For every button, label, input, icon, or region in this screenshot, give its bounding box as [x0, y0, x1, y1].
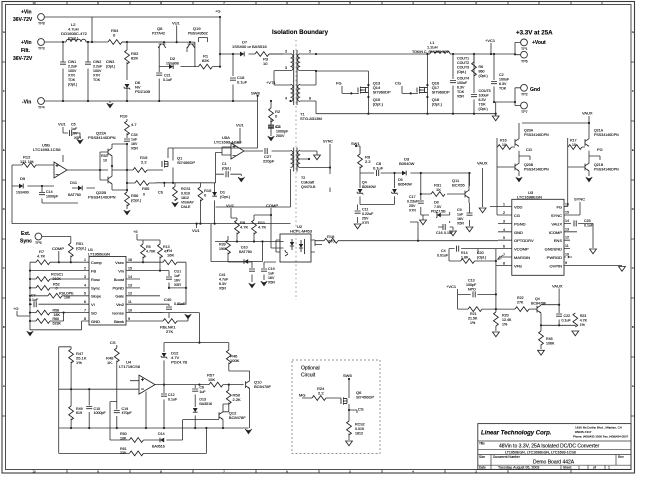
svg-text:SYNC: SYNC: [574, 197, 585, 202]
svg-text:BA3516: BA3516: [199, 402, 212, 406]
svg-text:+G: +G: [13, 306, 18, 311]
svg-text:BC8478F: BC8478F: [229, 415, 246, 420]
svg-text:F: F: [3, 89, 5, 93]
svg-text:R55: R55: [142, 186, 150, 191]
svg-text:10: 10: [32, 470, 36, 474]
svg-text:3: 3: [503, 219, 505, 223]
svg-text:15K: 15K: [208, 377, 215, 382]
svg-text:D10: D10: [241, 246, 248, 250]
svg-text:X5R: X5R: [74, 136, 81, 140]
svg-text:BAT760: BAT760: [68, 193, 81, 197]
svg-text:C: C: [632, 266, 634, 270]
svg-text:TP2: TP2: [521, 93, 528, 97]
svg-text:MARGIN: MARGIN: [514, 255, 530, 260]
svg-text:10: 10: [572, 143, 576, 147]
svg-text:470pF: 470pF: [122, 411, 133, 415]
svg-text:82K: 82K: [202, 58, 209, 63]
svg-text:4.7: 4.7: [131, 122, 137, 127]
svg-text:TDK: TDK: [479, 103, 487, 107]
svg-text:25V: 25V: [409, 204, 416, 208]
svg-text:FG: FG: [556, 205, 562, 210]
svg-text:TP7: TP7: [521, 110, 528, 114]
svg-text:C40: C40: [164, 297, 172, 302]
svg-text:TP3: TP3: [38, 47, 45, 51]
svg-text:VCOMP: VCOMP: [514, 247, 529, 252]
svg-text:12: 12: [128, 292, 132, 296]
svg-text:1%: 1%: [76, 360, 82, 365]
svg-text:X5R: X5R: [457, 95, 464, 99]
svg-text:1000pF: 1000pF: [276, 130, 289, 134]
svg-text:DALE: DALE: [181, 205, 191, 209]
svg-text:R49: R49: [76, 407, 83, 411]
svg-text:11: 11: [565, 244, 569, 248]
svg-text:C20: C20: [477, 251, 484, 255]
svg-text:Sync: Sync: [20, 239, 32, 245]
svg-text:R21: R21: [470, 312, 477, 316]
svg-text:Q21A: Q21A: [594, 129, 604, 133]
svg-text:4.7K: 4.7K: [37, 254, 46, 259]
svg-text:(Opt.): (Opt.): [106, 65, 115, 69]
svg-text:PSS34140DPN: PSS34140DPN: [88, 195, 116, 200]
svg-text:C15: C15: [94, 407, 101, 411]
svg-text:B0540W: B0540W: [362, 185, 376, 189]
svg-text:CIN1: CIN1: [68, 60, 76, 64]
svg-text:Circuit: Circuit: [301, 373, 316, 379]
svg-text:Optional: Optional: [301, 366, 320, 372]
svg-text:16V: 16V: [457, 217, 464, 221]
svg-text:6: 6: [503, 245, 505, 249]
svg-text:+VC1: +VC1: [446, 284, 457, 289]
svg-text:D: D: [632, 207, 634, 211]
svg-text:Q4: Q4: [362, 181, 367, 185]
svg-text:VAUX: VAUX: [582, 111, 593, 116]
svg-text:C13: C13: [468, 279, 475, 283]
svg-text:100uF: 100uF: [499, 78, 510, 82]
svg-text:Vin2: Vin2: [116, 302, 125, 307]
svg-text:VI: VI: [91, 302, 95, 307]
svg-text:27K: 27K: [166, 329, 173, 334]
svg-text:COUT1: COUT1: [457, 57, 469, 61]
svg-text:C14: C14: [46, 190, 53, 194]
svg-text:VDD: VDD: [514, 205, 523, 210]
svg-text:15: 15: [128, 266, 132, 270]
svg-text:TP8: TP8: [38, 22, 45, 26]
svg-text:R20: R20: [502, 314, 509, 318]
svg-text:(Opt.): (Opt.): [68, 36, 79, 41]
svg-text:Rosc: Rosc: [91, 277, 100, 282]
svg-text:LTC1693-1CS8: LTC1693-1CS8: [214, 140, 242, 145]
svg-text:GND: GND: [514, 230, 523, 235]
svg-text:Q20B: Q20B: [524, 163, 534, 167]
svg-text:0.1uF: 0.1uF: [562, 319, 572, 323]
svg-text:1630 McCarthy Blvd., Milpitas,: 1630 McCarthy Blvd., Milpitas, CA: [575, 426, 623, 430]
svg-text:Date: Date: [479, 466, 486, 470]
svg-text:100uF: 100uF: [479, 94, 490, 98]
svg-text:1.2uH: 1.2uH: [427, 45, 438, 50]
svg-text:Gate: Gate: [115, 294, 124, 299]
svg-text:+Vout: +Vout: [532, 40, 546, 46]
svg-text:PSS34140DPN: PSS34140DPN: [594, 168, 619, 172]
svg-text:PGND: PGND: [112, 286, 124, 291]
svg-text:D9: D9: [20, 176, 26, 181]
svg-text:TOKIN C. PI-1365-1R2: TOKIN C. PI-1365-1R2: [412, 50, 449, 54]
svg-text:X7R: X7R: [362, 221, 369, 225]
svg-text:(Opt.): (Opt.): [373, 102, 384, 107]
svg-text:PSS34140DPN: PSS34140DPN: [524, 168, 549, 172]
svg-text:C19: C19: [268, 267, 275, 271]
svg-text:C: C: [3, 266, 5, 270]
svg-text:PSS34140DPN: PSS34140DPN: [524, 133, 549, 137]
svg-text:SYNC: SYNC: [323, 140, 333, 144]
svg-text:STG-8313M: STG-8313M: [300, 116, 322, 121]
svg-text:4: 4: [84, 284, 86, 288]
svg-text:Q4: Q4: [535, 297, 540, 301]
svg-text:HCPL-M453: HCPL-M453: [290, 229, 313, 234]
svg-text:200V: 200V: [276, 134, 285, 138]
svg-text:Rev: Rev: [618, 455, 624, 459]
svg-text:PDZ7.5B: PDZ7.5B: [431, 210, 446, 214]
svg-text:1%: 1%: [502, 323, 508, 327]
svg-text:4.7uF: 4.7uF: [219, 278, 229, 282]
svg-text:VAUX: VAUX: [551, 221, 562, 226]
svg-text:121 1%: 121 1%: [20, 159, 34, 164]
svg-text:COMP: COMP: [266, 203, 278, 208]
svg-text:4.70K: 4.70K: [146, 250, 156, 254]
svg-text:4.7K: 4.7K: [580, 319, 588, 323]
svg-text:100V: 100V: [93, 69, 102, 73]
svg-text:16V: 16V: [131, 142, 138, 146]
svg-text:4: 4: [285, 97, 287, 101]
svg-text:CS: CS: [110, 340, 116, 345]
svg-text:Tuesday, August 05, 2003: Tuesday, August 05, 2003: [498, 466, 539, 470]
svg-text:D8: D8: [434, 201, 439, 205]
svg-text:+G: +G: [215, 9, 220, 14]
svg-text:Blank: Blank: [114, 319, 124, 324]
svg-text:14: 14: [128, 275, 132, 279]
svg-text:95035-7417: 95035-7417: [575, 430, 592, 434]
svg-text:COUT3: COUT3: [457, 66, 469, 70]
svg-text:16: 16: [565, 203, 569, 207]
svg-text:R14: R14: [461, 251, 468, 255]
svg-text:2.2uF: 2.2uF: [93, 65, 103, 69]
svg-text:D14: D14: [158, 432, 165, 436]
svg-text:+Vin: +Vin: [21, 10, 32, 16]
svg-text:CG: CG: [514, 213, 520, 218]
svg-text:(Opt.): (Opt.): [432, 102, 443, 107]
svg-text:C21: C21: [164, 74, 171, 78]
svg-text:CS: CS: [158, 191, 164, 195]
svg-text:619: 619: [76, 411, 82, 415]
svg-text:860: 860: [479, 70, 485, 74]
svg-text:B: B: [632, 325, 634, 329]
svg-text:VAUX: VAUX: [477, 161, 488, 166]
svg-text:BAT760: BAT760: [239, 250, 252, 254]
svg-text:1uF: 1uF: [199, 390, 206, 394]
svg-text:PSS34140DPN: PSS34140DPN: [594, 133, 619, 137]
svg-text:C5: C5: [71, 123, 76, 127]
svg-text:Linear Technology Corp.: Linear Technology Corp.: [481, 431, 552, 437]
svg-text:Si7960DP: Si7960DP: [432, 90, 450, 95]
svg-text:Slope: Slope: [91, 294, 102, 299]
svg-text:CG: CG: [395, 81, 401, 86]
svg-text:Q19: Q19: [193, 26, 201, 31]
svg-text:COUT2: COUT2: [457, 61, 469, 65]
svg-text:7: 7: [503, 253, 505, 257]
svg-text:6.3V: 6.3V: [219, 282, 227, 286]
svg-text:T2: T2: [301, 176, 305, 180]
svg-text:VISHAY: VISHAY: [181, 201, 195, 205]
svg-text:Si7456DP: Si7456DP: [356, 395, 374, 400]
svg-text:RCSC1: RCSC1: [51, 273, 63, 277]
svg-text:12: 12: [565, 236, 569, 240]
svg-text:CIN3: CIN3: [106, 60, 114, 64]
svg-text:LTC1693-1CS8: LTC1693-1CS8: [33, 147, 61, 152]
svg-text:100V: 100V: [68, 69, 77, 73]
svg-text:9: 9: [128, 317, 130, 321]
svg-text:1000pF: 1000pF: [94, 411, 107, 415]
svg-text:1SS400: 1SS400: [16, 191, 29, 195]
svg-text:10: 10: [565, 253, 569, 257]
svg-text:Isense: Isense: [112, 310, 125, 315]
svg-text:C17: C17: [409, 195, 416, 199]
svg-text:(Opt.): (Opt.): [477, 256, 486, 260]
svg-text:13: 13: [128, 284, 132, 288]
svg-text:16: 16: [128, 258, 132, 262]
svg-text:1uF: 1uF: [174, 274, 181, 278]
svg-text:C1: C1: [222, 162, 227, 166]
svg-text:Q8: Q8: [157, 26, 163, 31]
svg-text:0: 0: [56, 287, 58, 291]
svg-text:SO: SO: [91, 310, 97, 315]
svg-text:C19: C19: [122, 407, 129, 411]
svg-text:PDZ10B: PDZ10B: [135, 89, 150, 94]
svg-text:7: 7: [84, 308, 86, 312]
svg-text:Filt.: Filt.: [21, 48, 30, 54]
svg-text:523K: 523K: [53, 321, 62, 325]
svg-text:LT1950EGN: LT1950EGN: [88, 252, 110, 257]
svg-text:82K: 82K: [131, 56, 138, 61]
svg-text:R16: R16: [500, 139, 507, 143]
svg-text:FG: FG: [597, 147, 603, 152]
svg-text:C6: C6: [199, 385, 204, 389]
svg-text:R17: R17: [570, 139, 577, 143]
svg-text:(Opt.): (Opt.): [479, 74, 488, 78]
svg-text:C2: C2: [499, 73, 504, 77]
svg-text:LT1950EGN, LTC1698EGN, LTC1693: LT1950EGN, LTC1698EGN, LTC1693-1CS8: [505, 451, 576, 455]
svg-text:SYNC: SYNC: [551, 213, 562, 218]
svg-text:(Opt.): (Opt.): [76, 246, 87, 251]
svg-text:Gnd: Gnd: [530, 87, 540, 93]
svg-text:16V: 16V: [174, 279, 181, 283]
svg-text:R10: R10: [120, 114, 128, 119]
svg-text:10: 10: [32, 1, 36, 5]
svg-text:X5R: X5R: [457, 222, 464, 226]
svg-text:1: 1: [84, 258, 86, 262]
svg-text:C16: C16: [436, 231, 443, 235]
svg-text:SW8: SW8: [343, 373, 352, 378]
svg-text:VU1: VU1: [236, 123, 245, 128]
svg-text:E: E: [632, 148, 634, 152]
svg-text:0.1uF: 0.1uF: [237, 80, 248, 85]
svg-text:0.1uF: 0.1uF: [163, 78, 173, 82]
svg-text:48Vin to 3.3V, 25A Isolated DC: 48Vin to 3.3V, 25A Isolated DC/DC Conver…: [499, 444, 600, 450]
svg-text:36V-72V: 36V-72V: [13, 17, 33, 23]
svg-text:0: 0: [143, 193, 145, 197]
svg-text:-Vin: -Vin: [22, 100, 31, 106]
svg-text:OPTODRV: OPTODRV: [514, 238, 534, 243]
svg-text:3: 3: [285, 50, 287, 54]
svg-text:GND: GND: [91, 319, 100, 324]
svg-text:of: of: [593, 466, 596, 470]
svg-text:ICOMP: ICOMP: [549, 230, 562, 235]
svg-text:10: 10: [502, 143, 506, 147]
svg-text:CU1: CU1: [174, 270, 181, 274]
svg-text:X7R: X7R: [93, 74, 100, 78]
svg-text:270: 270: [328, 239, 335, 244]
svg-text:F: F: [632, 89, 634, 93]
svg-text:0.015: 0.015: [355, 427, 364, 431]
svg-text:R6: R6: [479, 65, 484, 69]
svg-text:C41: C41: [219, 273, 226, 277]
svg-text:C9: C9: [457, 208, 462, 212]
svg-text:4: 4: [503, 228, 505, 232]
svg-text:5: 5: [309, 50, 311, 54]
svg-text:X7R: X7R: [68, 74, 75, 78]
svg-text:1812: 1812: [181, 196, 189, 200]
svg-text:CIN2: CIN2: [93, 60, 101, 64]
svg-text:LTC1698EGN: LTC1698EGN: [517, 195, 542, 200]
svg-text:D2: D2: [170, 56, 176, 61]
svg-text:2: 2: [503, 211, 505, 215]
svg-text:0.010: 0.010: [181, 192, 190, 196]
svg-text:1812: 1812: [355, 432, 363, 436]
svg-text:A: A: [632, 384, 634, 388]
svg-text:6.3V: 6.3V: [499, 82, 507, 86]
svg-text:PWRGD: PWRGD: [547, 255, 562, 260]
svg-text:C7: C7: [31, 294, 36, 298]
svg-text:(Opt.): (Opt.): [131, 198, 142, 203]
svg-text:BC8478F: BC8478F: [254, 384, 271, 389]
svg-text:X5R: X5R: [268, 281, 275, 285]
svg-text:2.2: 2.2: [365, 159, 371, 164]
svg-text:13: 13: [565, 227, 569, 231]
svg-text:CG: CG: [526, 147, 532, 152]
svg-text:RCS2: RCS2: [355, 423, 365, 427]
svg-text:10: 10: [263, 61, 268, 66]
svg-text:(Opt.): (Opt.): [479, 107, 488, 111]
svg-text:C34: C34: [131, 133, 138, 137]
svg-text:TDK: TDK: [93, 78, 101, 82]
svg-text:VU2: VU2: [226, 203, 235, 208]
svg-text:15: 15: [565, 211, 569, 215]
svg-text:R22: R22: [517, 296, 524, 300]
svg-text:+5: +5: [133, 229, 138, 234]
svg-text:7.5V: 7.5V: [434, 205, 442, 209]
svg-text:(Opt.): (Opt.): [457, 70, 466, 74]
svg-text:1000pF: 1000pF: [46, 195, 59, 199]
svg-text:CS: CS: [358, 407, 364, 412]
svg-text:BCX55: BCX55: [452, 183, 465, 188]
svg-text:X5R: X5R: [174, 283, 181, 287]
svg-text:1uF: 1uF: [457, 213, 464, 217]
svg-text:R23: R23: [580, 314, 587, 318]
svg-text:100uF: 100uF: [457, 81, 468, 85]
svg-text:5: 5: [84, 292, 86, 296]
svg-text:Ext.: Ext.: [21, 231, 31, 237]
svg-text:Coilcraft: Coilcraft: [301, 181, 314, 185]
svg-text:COUT4: COUT4: [457, 77, 469, 81]
svg-text:PZTA42: PZTA42: [152, 32, 165, 36]
svg-text:8: 8: [84, 317, 86, 321]
svg-text:A: A: [3, 384, 5, 388]
svg-text:COMP: COMP: [52, 246, 64, 251]
svg-text:10: 10: [128, 308, 132, 312]
svg-text:+VC1: +VC1: [485, 38, 496, 43]
svg-text:1: 1: [608, 466, 610, 470]
svg-text:+3.3V at 25A: +3.3V at 25A: [516, 30, 553, 37]
svg-text:E: E: [3, 148, 5, 152]
svg-text:R45: R45: [546, 337, 553, 341]
svg-text:Title: Title: [479, 441, 485, 445]
svg-text:C12: C12: [168, 393, 175, 397]
svg-text:R53: R53: [101, 154, 108, 158]
svg-text:2: 2: [84, 266, 86, 270]
svg-text:Vsec: Vsec: [115, 260, 124, 265]
svg-text:10K: 10K: [64, 296, 71, 300]
svg-text:8: 8: [309, 97, 311, 101]
svg-text:FB: FB: [91, 268, 96, 273]
svg-text:(Opt.): (Opt.): [68, 83, 77, 87]
svg-text:2.2K: 2.2K: [233, 397, 242, 402]
svg-text:TP5: TP5: [35, 241, 42, 245]
svg-text:16V: 16V: [268, 276, 275, 280]
svg-text:Vin: Vin: [118, 268, 124, 273]
svg-text:Document Number: Document Number: [493, 455, 521, 459]
svg-text:0.23uF: 0.23uF: [407, 200, 419, 204]
svg-text:4.7K: 4.7K: [258, 225, 267, 230]
svg-text:VFB: VFB: [514, 263, 522, 268]
svg-text:ENS: ENS: [554, 238, 563, 243]
svg-text:VU1: VU1: [172, 21, 181, 26]
svg-text:PGND: PGND: [514, 221, 526, 226]
svg-text:4.7K: 4.7K: [240, 225, 249, 230]
svg-text:TDK: TDK: [68, 78, 76, 82]
svg-text:RCS1: RCS1: [181, 187, 191, 191]
svg-text:1SS408: 1SS408: [166, 61, 179, 65]
svg-text:MG: MG: [299, 393, 305, 398]
svg-text:Sheet: Sheet: [563, 466, 571, 470]
svg-text:1uF: 1uF: [131, 138, 138, 142]
svg-text:TP4: TP4: [38, 106, 45, 110]
svg-text:25V: 25V: [362, 217, 369, 221]
svg-text:R61: R61: [120, 447, 127, 451]
svg-text:B0540W: B0540W: [399, 161, 415, 166]
svg-text:6.3V: 6.3V: [457, 86, 465, 90]
svg-text:R39: R39: [219, 243, 226, 247]
svg-text:Boost: Boost: [114, 277, 125, 282]
svg-text:Phone: (408)432-1900 Fax: (408: Phone: (408)432-1900 Fax: (408)434-0507: [573, 435, 629, 439]
svg-text:Si7960DP: Si7960DP: [373, 90, 391, 95]
svg-text:2.2: 2.2: [141, 160, 147, 165]
svg-text:220pF: 220pF: [263, 159, 275, 164]
svg-text:TDK: TDK: [457, 90, 465, 94]
svg-text:(Opt.): (Opt.): [220, 194, 231, 199]
svg-text:106K: 106K: [546, 341, 555, 345]
svg-text:21.5K: 21.5K: [468, 317, 478, 321]
svg-text:36V-72V: 36V-72V: [13, 56, 33, 62]
svg-text:1%: 1%: [580, 323, 586, 327]
svg-text:G: G: [632, 30, 634, 34]
